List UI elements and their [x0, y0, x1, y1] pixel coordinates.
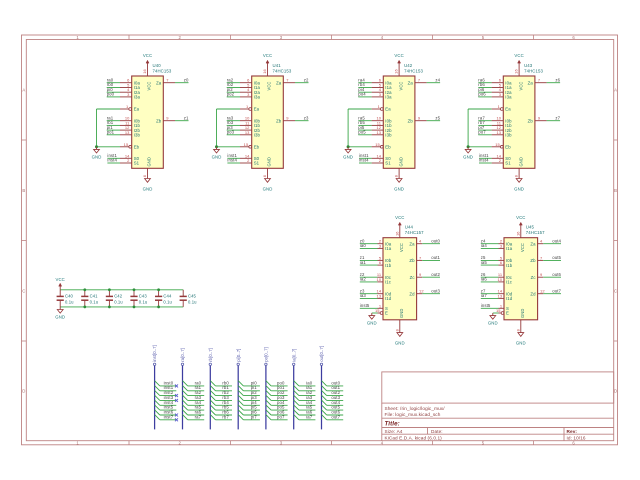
svg-text:I1d: I1d: [506, 296, 513, 301]
svg-text:74HC153: 74HC153: [153, 69, 172, 74]
svg-text:Za: Za: [530, 241, 536, 246]
svg-text:74HC157: 74HC157: [405, 230, 424, 235]
svg-text:74HC153: 74HC153: [404, 69, 423, 74]
svg-text:inst4: inst4: [479, 158, 489, 163]
svg-text:ia6: ia6: [481, 277, 488, 282]
svg-text:Zd: Zd: [530, 291, 536, 296]
svg-text:GND: GND: [92, 154, 102, 159]
svg-text:I3b: I3b: [134, 133, 141, 138]
svg-text:out6: out6: [552, 272, 561, 277]
svg-text:File: logic_mux.kicad_sch: File: logic_mux.kicad_sch: [385, 412, 441, 417]
svg-text:10: 10: [498, 277, 503, 282]
svg-text:C42: C42: [114, 293, 123, 298]
svg-text:po1: po1: [107, 130, 115, 135]
svg-text:ia0: ia0: [360, 243, 367, 248]
svg-text:GND: GND: [516, 341, 526, 346]
svg-text:GND: GND: [263, 187, 273, 192]
svg-text:VCC: VCC: [399, 243, 404, 252]
svg-text:GND: GND: [520, 309, 525, 318]
svg-text:GND: GND: [267, 157, 272, 166]
svg-text:15: 15: [375, 142, 380, 147]
svg-text:16: 16: [394, 69, 399, 74]
svg-text:ia7: ia7: [306, 414, 313, 419]
svg-text:VCC: VCC: [518, 82, 523, 91]
svg-text:I3a: I3a: [254, 95, 261, 100]
svg-text:74HC153: 74HC153: [524, 69, 543, 74]
svg-text:z5: z5: [435, 115, 440, 120]
svg-text:15: 15: [124, 142, 129, 147]
svg-text:13: 13: [245, 130, 250, 135]
svg-text:Zd: Zd: [409, 291, 415, 296]
svg-text:I1c: I1c: [506, 280, 513, 285]
svg-text:16: 16: [142, 69, 147, 74]
svg-text:13: 13: [125, 130, 130, 135]
svg-text:GND: GND: [394, 187, 404, 192]
svg-text:D: D: [614, 389, 617, 394]
svg-text:Zc: Zc: [410, 275, 416, 280]
svg-text:ra[0..7]: ra[0..7]: [180, 348, 185, 362]
svg-text:Ea: Ea: [134, 107, 140, 112]
svg-text:12: 12: [419, 289, 424, 294]
svg-text:GND: GND: [367, 321, 377, 326]
svg-text:0.1u: 0.1u: [114, 300, 123, 305]
svg-text:out3: out3: [431, 288, 440, 293]
svg-text:Zb: Zb: [156, 118, 162, 123]
svg-text:po7: po7: [277, 414, 285, 419]
svg-text:GND: GND: [488, 321, 498, 326]
svg-text:GND: GND: [399, 309, 404, 318]
svg-text:ra7: ra7: [195, 414, 202, 419]
svg-text:Zb: Zb: [409, 258, 415, 263]
svg-text:A: A: [614, 87, 617, 92]
svg-text:16: 16: [262, 69, 267, 74]
svg-text:Title:: Title:: [385, 420, 400, 427]
svg-text:8: 8: [394, 175, 399, 177]
svg-text:VCC: VCC: [56, 277, 65, 282]
svg-text:I3b: I3b: [254, 133, 261, 138]
svg-text:C: C: [22, 288, 25, 293]
svg-text:Zb: Zb: [530, 258, 536, 263]
svg-text:Date:: Date:: [431, 429, 443, 434]
svg-text:z7: z7: [555, 115, 560, 120]
svg-text:Za: Za: [528, 80, 534, 85]
svg-text:po6: po6: [478, 92, 486, 97]
svg-text:Eb: Eb: [505, 145, 511, 150]
svg-text:inst4: inst4: [107, 158, 117, 163]
svg-text:S1: S1: [254, 161, 260, 166]
svg-text:z6: z6: [555, 77, 560, 82]
svg-text:C41: C41: [90, 293, 99, 298]
svg-text:GND: GND: [514, 187, 524, 192]
svg-text:GND: GND: [147, 157, 152, 166]
svg-text:out7: out7: [552, 288, 561, 293]
svg-text:I1a: I1a: [506, 246, 513, 251]
svg-text:C45: C45: [188, 293, 197, 298]
svg-text:po4: po4: [358, 92, 366, 97]
svg-text:10: 10: [377, 277, 382, 282]
svg-text:Zb: Zb: [276, 118, 282, 123]
svg-text:E: E: [506, 311, 509, 316]
svg-text:I3a: I3a: [134, 95, 141, 100]
svg-text:Za: Za: [276, 80, 282, 85]
svg-text:D: D: [22, 389, 25, 394]
svg-text:Eb: Eb: [385, 145, 391, 150]
svg-text:KiCad E.D.A. kicad (6.0.1): KiCad E.D.A. kicad (6.0.1): [385, 435, 443, 440]
svg-text:U42: U42: [404, 63, 413, 68]
svg-text:GND: GND: [398, 157, 403, 166]
svg-text:GND: GND: [212, 154, 222, 159]
svg-text:rb7: rb7: [222, 414, 229, 419]
svg-text:16: 16: [394, 231, 399, 236]
svg-text:C40: C40: [65, 293, 74, 298]
svg-text:ia7: ia7: [481, 293, 488, 298]
svg-text:15: 15: [496, 308, 501, 313]
svg-text:Zb: Zb: [528, 118, 534, 123]
svg-text:I1a: I1a: [385, 246, 392, 251]
svg-text:S1: S1: [134, 161, 140, 166]
svg-text:pi[0..7]: pi[0..7]: [236, 349, 241, 362]
svg-text:out2: out2: [431, 272, 440, 277]
svg-text:VCC: VCC: [263, 53, 272, 58]
svg-text:S1: S1: [505, 161, 511, 166]
svg-text:Zc: Zc: [531, 275, 537, 280]
svg-text:Ea: Ea: [254, 107, 260, 112]
svg-text:z1: z1: [184, 115, 189, 120]
svg-text:out[0..7]: out[0..7]: [319, 346, 324, 362]
svg-text:pi7: pi7: [251, 414, 258, 419]
svg-text:Za: Za: [409, 241, 415, 246]
svg-text:13: 13: [376, 130, 381, 135]
svg-text:Zb: Zb: [408, 118, 414, 123]
svg-text:8: 8: [262, 175, 267, 177]
svg-text:Eb: Eb: [254, 145, 260, 150]
svg-text:I1b: I1b: [385, 263, 392, 268]
svg-text:8: 8: [394, 329, 399, 331]
svg-text:0.1u: 0.1u: [90, 300, 99, 305]
svg-text:15: 15: [244, 142, 249, 147]
svg-text:U41: U41: [273, 63, 282, 68]
svg-text:GND: GND: [343, 154, 353, 159]
svg-text:B: B: [22, 188, 25, 193]
svg-text:I1c: I1c: [385, 280, 392, 285]
svg-text:Size: A4: Size: A4: [385, 429, 403, 434]
svg-text:VCC: VCC: [143, 53, 152, 58]
svg-text:inst5: inst5: [360, 303, 370, 308]
svg-text:GND: GND: [518, 157, 523, 166]
svg-text:Rev:: Rev:: [567, 429, 578, 434]
svg-text:S1: S1: [385, 161, 391, 166]
svg-text:po5: po5: [358, 130, 366, 135]
svg-text:VCC: VCC: [267, 82, 272, 91]
svg-text:ia2: ia2: [360, 277, 367, 282]
svg-text:I3a: I3a: [385, 95, 392, 100]
svg-text:I3a: I3a: [505, 95, 512, 100]
svg-text:Za: Za: [156, 80, 162, 85]
svg-text:Ea: Ea: [385, 107, 391, 112]
svg-text:VCC: VCC: [395, 215, 404, 220]
svg-text:0.1u: 0.1u: [188, 300, 197, 305]
svg-text:out7: out7: [331, 414, 340, 419]
svg-text:0.1u: 0.1u: [163, 300, 172, 305]
svg-text:C44: C44: [163, 293, 172, 298]
svg-text:U45: U45: [526, 225, 535, 230]
svg-text:inst4: inst4: [359, 158, 369, 163]
svg-text:15: 15: [495, 142, 500, 147]
svg-text:GND: GND: [55, 315, 65, 320]
svg-text:Za: Za: [408, 80, 414, 85]
svg-text:ia[0..7]: ia[0..7]: [291, 349, 296, 362]
svg-text:13: 13: [377, 293, 382, 298]
svg-text:VCC: VCC: [520, 243, 525, 252]
svg-text:z0: z0: [184, 77, 189, 82]
svg-text:out1: out1: [431, 255, 440, 260]
svg-text:z3: z3: [304, 115, 309, 120]
svg-text:8: 8: [514, 175, 519, 177]
svg-text:VCC: VCC: [398, 82, 403, 91]
svg-text:GND: GND: [143, 187, 153, 192]
svg-text:8: 8: [515, 329, 520, 331]
svg-text:Ea: Ea: [505, 107, 511, 112]
svg-text:po7: po7: [478, 130, 486, 135]
svg-text:out0: out0: [431, 238, 440, 243]
svg-text:74HC157: 74HC157: [526, 230, 545, 235]
svg-text:inst[0..7]: inst[0..7]: [152, 345, 157, 362]
svg-text:VCC: VCC: [514, 53, 523, 58]
svg-text:C: C: [614, 288, 617, 293]
svg-text:U43: U43: [524, 63, 533, 68]
svg-text:ia1: ia1: [360, 260, 367, 265]
svg-text:po3: po3: [227, 130, 235, 135]
svg-text:13: 13: [496, 130, 501, 135]
svg-text:ia3: ia3: [360, 293, 367, 298]
svg-text:I1d: I1d: [385, 296, 392, 301]
svg-text:ia5: ia5: [481, 260, 488, 265]
svg-text:E: E: [385, 311, 388, 316]
svg-text:15: 15: [375, 308, 380, 313]
svg-text:rb[0..7]: rb[0..7]: [208, 348, 213, 362]
svg-text:VCC: VCC: [147, 82, 152, 91]
svg-text:12: 12: [540, 289, 545, 294]
svg-text:inst5: inst5: [481, 303, 491, 308]
svg-text:0.1u: 0.1u: [65, 300, 74, 305]
svg-text:po2: po2: [227, 92, 235, 97]
svg-text:16: 16: [514, 69, 519, 74]
svg-text:z4: z4: [435, 77, 440, 82]
svg-text:I3b: I3b: [385, 133, 392, 138]
svg-text:Sheet: /rin_logic/logic_mux/: Sheet: /rin_logic/logic_mux/: [385, 406, 446, 411]
svg-text:C43: C43: [139, 293, 148, 298]
svg-text:po[0..7]: po[0..7]: [264, 347, 269, 362]
svg-text:U40: U40: [153, 63, 162, 68]
svg-text:8: 8: [142, 175, 147, 177]
svg-text:ia4: ia4: [481, 243, 488, 248]
svg-text:Eb: Eb: [134, 145, 140, 150]
svg-text:GND: GND: [463, 154, 473, 159]
svg-text:z2: z2: [304, 77, 309, 82]
svg-text:Id: 10/16: Id: 10/16: [567, 435, 586, 440]
svg-text:B: B: [614, 188, 617, 193]
svg-text:out4: out4: [552, 238, 561, 243]
svg-text:po0: po0: [107, 92, 115, 97]
svg-text:I3b: I3b: [505, 133, 512, 138]
svg-text:VCC: VCC: [394, 53, 403, 58]
svg-text:A: A: [22, 87, 25, 92]
svg-text:16: 16: [515, 231, 520, 236]
svg-text:74HC153: 74HC153: [273, 69, 292, 74]
svg-text:0.1u: 0.1u: [139, 300, 148, 305]
svg-text:VCC: VCC: [516, 215, 525, 220]
svg-text:I1b: I1b: [506, 263, 513, 268]
svg-text:inst7: inst7: [164, 414, 174, 419]
svg-text:U44: U44: [405, 225, 414, 230]
svg-text:inst4: inst4: [227, 158, 237, 163]
svg-text:GND: GND: [395, 341, 405, 346]
svg-text:out5: out5: [552, 255, 561, 260]
svg-text:13: 13: [498, 293, 503, 298]
